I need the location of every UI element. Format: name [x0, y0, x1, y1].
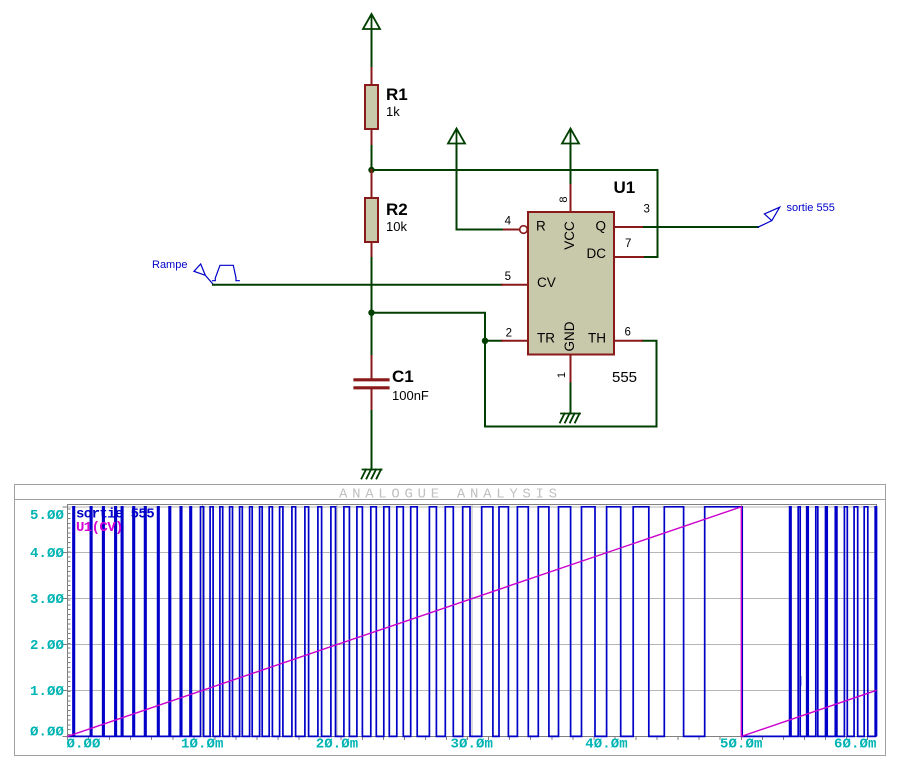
svg-text:10k: 10k: [386, 219, 407, 234]
svg-text:1: 1: [556, 372, 568, 378]
wire: VCC arrow down to pin 8: [570, 144, 572, 186]
svg-text:Rampe: Rampe: [152, 259, 187, 271]
svg-text:4Ø.Øm: 4Ø.Øm: [585, 737, 628, 753]
svg-text:GND: GND: [562, 321, 577, 351]
wire: Rampe to pin 5 CV: [213, 284, 502, 286]
ground symbol under U1: [560, 414, 580, 423]
svg-text:R2: R2: [386, 200, 408, 219]
plot border: [68, 505, 877, 737]
wire: node B to TR node: [372, 313, 486, 341]
gridlines: [68, 505, 877, 737]
Rampe terminal arrow: [194, 264, 214, 285]
pin 2 TR stub: [502, 340, 528, 342]
node B junction dot: [368, 310, 374, 316]
svg-text:Ø.ØØ: Ø.ØØ: [66, 737, 101, 753]
svg-text:3.ØØ: 3.ØØ: [30, 592, 65, 608]
svg-text:TR: TR: [537, 331, 555, 346]
pin 8 VCC stub: [570, 185, 572, 212]
svg-text:1.ØØ: 1.ØØ: [30, 684, 65, 700]
svg-text:100nF: 100nF: [392, 388, 429, 403]
title bar underline: [15, 499, 886, 501]
svg-text:5.ØØ: 5.ØØ: [30, 508, 65, 524]
trace U1(CV) magenta ramp: [68, 507, 877, 737]
svg-text:U1(CV): U1(CV): [76, 520, 123, 536]
wire: pin 3 Q output: [644, 226, 758, 228]
ground symbol under C1: [362, 470, 382, 479]
wire: node C down and around to pin 6 TH: [485, 341, 657, 427]
svg-text:6Ø.Øm: 6Ø.Øm: [834, 737, 877, 753]
wire: pin 1 to ground: [570, 384, 572, 414]
pin 3 Q stub: [614, 226, 644, 228]
resistor R1: [365, 68, 378, 146]
svg-text:2Ø.Øm: 2Ø.Øm: [316, 737, 359, 753]
svg-text:ANALOGUE ANALYSIS: ANALOGUE ANALYSIS: [339, 487, 562, 503]
svg-text:3: 3: [644, 204, 650, 216]
y axis labels: [30, 508, 65, 741]
pin 6 TH stub: [614, 340, 642, 342]
pin 4 R stub with bubble: [504, 229, 520, 231]
wire: node A to DC loop (horizontal): [372, 169, 658, 171]
power symbol VCC top: [363, 14, 380, 29]
op-amp U1 555 timer body: [528, 212, 614, 355]
wire: C1 to ground: [371, 411, 373, 470]
wire: R1 to node A: [371, 146, 373, 170]
wire: node B down to C1: [371, 313, 373, 356]
axis ticks: [63, 507, 868, 740]
svg-text:2.ØØ: 2.ØØ: [30, 638, 65, 654]
node C junction dot (TR): [482, 338, 488, 344]
svg-text:3Ø.Øm: 3Ø.Øm: [451, 737, 494, 753]
svg-text:4.ØØ: 4.ØØ: [30, 546, 65, 562]
svg-text:555: 555: [612, 369, 637, 386]
svg-text:6: 6: [625, 327, 631, 339]
svg-text:1k: 1k: [386, 104, 400, 119]
svg-text:VCC: VCC: [562, 221, 577, 250]
power symbol VCC mid-right: [562, 129, 579, 144]
Rampe pulse glyph: [213, 265, 240, 280]
svg-text:1Ø.Øm: 1Ø.Øm: [181, 737, 224, 753]
svg-text:8: 8: [558, 196, 570, 202]
wire: R2 to node B: [371, 258, 373, 313]
svg-text:2: 2: [506, 328, 512, 340]
wire: node C to pin 2 TR: [485, 340, 502, 342]
svg-text:TH: TH: [588, 331, 606, 346]
svg-text:R1: R1: [386, 85, 408, 104]
trace sortie 555 (blue square wave): [68, 507, 877, 737]
svg-text:C1: C1: [392, 367, 414, 386]
svg-text:7: 7: [625, 238, 631, 250]
svg-text:Q: Q: [595, 219, 606, 234]
svg-text:5: 5: [505, 271, 511, 283]
svg-text:4: 4: [505, 216, 512, 228]
wire: VCC arrow down to pin 4 R: [457, 144, 505, 230]
svg-text:DC: DC: [587, 246, 607, 261]
sortie 555 terminal arrow: [758, 207, 780, 227]
pin 1 GND stub: [570, 355, 572, 384]
wire: power to R1: [371, 29, 373, 68]
svg-text:U1: U1: [614, 178, 636, 197]
power symbol VCC mid-left: [448, 129, 465, 144]
x axis labels: [66, 737, 876, 753]
capacitor C1: [355, 356, 388, 411]
wire: vertical down to pin 7 DC: [643, 170, 658, 257]
node A junction dot: [368, 167, 374, 173]
pin 7 DC stub: [614, 256, 643, 258]
graph window frame: [15, 485, 886, 756]
resistor R2: [365, 170, 378, 258]
trace glitch artifact: [800, 676, 802, 686]
svg-text:sortie 555: sortie 555: [787, 202, 835, 214]
svg-text:R: R: [536, 219, 546, 234]
svg-text:Ø.ØØ: Ø.ØØ: [30, 724, 65, 740]
svg-text:CV: CV: [537, 275, 556, 290]
svg-text:5Ø.Øm: 5Ø.Øm: [720, 737, 763, 753]
pin 5 CV stub: [502, 284, 528, 286]
